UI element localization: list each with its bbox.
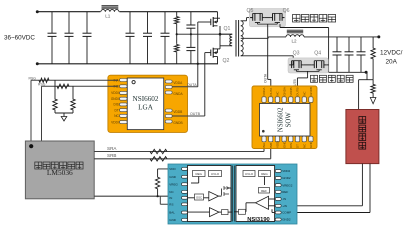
svg-text:+IN: +IN [282,204,287,208]
svg-text:VDDI: VDDI [276,141,280,148]
svg-text:NSI6602: NSI6602 [133,95,159,103]
svg-text:DT: DT [115,108,119,112]
svg-text:20A: 20A [386,59,398,66]
svg-text:Q4: Q4 [314,51,321,57]
svg-text:OUTA: OUTA [187,83,197,87]
svg-text:RSG: RSG [38,83,46,87]
svg-text:VDDB: VDDB [173,110,182,114]
svg-text:L1: L1 [105,14,111,19]
svg-text:COMP: COMP [282,211,291,215]
svg-text:NSI6602: NSI6602 [278,107,285,132]
svg-text:UVLO: UVLO [211,172,220,176]
svg-text:GND: GND [169,175,177,179]
svg-text:-IN: -IN [282,197,286,201]
svg-text:RS: RS [169,203,173,207]
svg-text:VREG: VREG [169,182,178,186]
svg-text:RSG: RSG [29,77,37,81]
svg-text:VDD: VDD [169,167,176,171]
svg-text:SRB: SRB [107,153,116,158]
svg-text:DIS: DIS [113,103,118,107]
svg-text:GNDA: GNDA [173,92,183,96]
svg-text:VDDI: VDDI [111,120,119,124]
svg-text:GNDI: GNDI [111,97,119,101]
svg-text:REF: REF [282,190,288,194]
svg-text:L2: L2 [292,38,298,43]
svg-text:REG: REG [195,172,202,176]
svg-text:LM5036: LM5036 [47,168,73,177]
svg-text:VDDA: VDDA [173,81,183,85]
svg-text:REG: REG [261,172,268,176]
svg-text:OUTA: OUTA [263,73,267,83]
svg-text:NSI3190: NSI3190 [247,217,270,223]
svg-text:INA: INA [262,143,266,148]
svg-text:Q5: Q5 [247,8,254,14]
svg-text:OUTB: OUTB [296,87,300,95]
svg-text:GNDI: GNDI [282,140,286,148]
svg-text:UVLO: UVLO [245,172,254,176]
svg-text:Q1: Q1 [224,26,231,32]
svg-text:GND2: GND2 [282,176,291,180]
svg-text:DT: DT [296,144,300,148]
svg-text:SRA: SRA [107,146,117,151]
svg-text:INB: INB [269,143,273,148]
svg-text:12VDC/: 12VDC/ [380,50,403,57]
svg-text:Q2: Q2 [223,58,230,64]
svg-text:IN: IN [169,196,172,200]
svg-text:GNDA: GNDA [282,87,286,96]
svg-text:OSC: OSC [196,196,202,200]
svg-text:DIS: DIS [289,143,293,148]
svg-text:GND2: GND2 [282,218,291,222]
svg-text:LGA: LGA [138,103,154,111]
svg-text:GND: GND [169,218,177,222]
svg-text:36~60VDC: 36~60VDC [4,35,35,42]
svg-text:GNDI: GNDI [309,140,313,148]
svg-text:VDD2: VDD2 [282,169,290,173]
svg-text:OUTB: OUTB [190,112,201,116]
svg-text:GNDB: GNDB [309,87,313,96]
svg-text:OUTA: OUTA [269,88,273,96]
svg-text:VDDI: VDDI [111,91,119,95]
svg-text:Q6: Q6 [283,8,290,14]
svg-text:SOW: SOW [286,112,293,128]
svg-text:NC: NC [114,114,119,118]
svg-text:REF: REF [261,189,267,193]
svg-text:GNDB: GNDB [173,121,182,125]
svg-text:VREG2: VREG2 [282,183,293,187]
svg-text:VDDB: VDDB [289,87,293,95]
svg-text:VDDA: VDDA [262,87,266,95]
svg-text:BAL: BAL [169,211,175,215]
svg-text:Q3: Q3 [293,51,300,57]
